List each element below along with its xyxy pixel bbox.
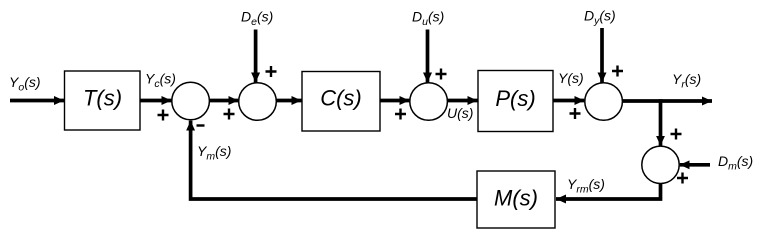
svg-text:T(s): T(s) — [83, 86, 122, 111]
svg-text:Yr(s): Yr(s) — [672, 71, 701, 91]
svg-text:Dm(s): Dm(s) — [718, 153, 753, 173]
wire: Dy(s) disturbance arrow into S4 — [600, 28, 604, 83]
summing junction S5 — [642, 146, 679, 183]
wire: S2 to C(s) — [276, 99, 301, 103]
block M1: measurement M(s) — [477, 171, 555, 228]
wire: S1 to summer S2 — [209, 99, 238, 103]
plus sign at S5 right input — [677, 173, 688, 184]
summing junction S4 — [585, 83, 623, 121]
svg-text:C(s): C(s) — [320, 86, 362, 111]
wire: T(s) to summer S1 — [140, 99, 172, 103]
summing junction S1 — [172, 82, 210, 120]
svg-text:Dy(s): Dy(s) — [584, 8, 616, 28]
wire: Dm(s) disturbance arrow into S5 — [680, 163, 710, 167]
summing junction S3 — [410, 83, 448, 121]
svg-text:Yo(s): Yo(s) — [9, 74, 41, 94]
block C1: controller C(s) — [302, 72, 380, 132]
svg-text:U(s): U(s) — [447, 105, 473, 121]
plus sign at S1 input — [158, 110, 169, 121]
wire: De(s) disturbance arrow into S2 — [254, 30, 258, 83]
wire: Du(s) disturbance arrow into S3 — [426, 30, 430, 83]
svg-text:De(s): De(s) — [241, 9, 273, 29]
plus sign at S4 top input — [612, 66, 623, 77]
plus sign at S5 top input — [671, 129, 682, 140]
plus sign at S2 input — [224, 109, 235, 120]
plus sign at S2 top input — [266, 66, 277, 77]
wire: P(s) to summer S4 — [553, 99, 584, 103]
plus sign at S3 input — [395, 109, 406, 120]
svg-text:P(s): P(s) — [495, 86, 535, 111]
wire: S4 to output Yr(s) — [622, 99, 712, 103]
plus sign at S4 input — [570, 108, 581, 119]
plus sign at S3 top input — [436, 69, 447, 80]
svg-text:Yc(s): Yc(s) — [145, 71, 176, 91]
wire: branch from output down into summer S5 — [659, 99, 663, 146]
wire: S5 down and left into M(s) — [556, 184, 661, 200]
svg-text:Du(s): Du(s) — [412, 9, 444, 29]
wire: M(s) feedback left and up into S1 — [191, 121, 477, 199]
wire: C(s) to summer S3 — [380, 99, 410, 103]
svg-text:M(s): M(s) — [494, 186, 538, 211]
wire: input arrow into T(s) — [10, 99, 64, 103]
block T1: prefilter T(s) — [65, 71, 141, 130]
svg-text:Ym(s): Ym(s) — [197, 143, 231, 163]
summing junction S2 — [239, 83, 277, 121]
wire: S3 to P(s) — [447, 99, 477, 103]
svg-text:Y(s): Y(s) — [558, 70, 584, 86]
svg-text:Yrm(s): Yrm(s) — [567, 176, 605, 196]
block P1: plant P(s) — [478, 71, 553, 132]
minus sign at S1 feedback input — [197, 124, 205, 126]
